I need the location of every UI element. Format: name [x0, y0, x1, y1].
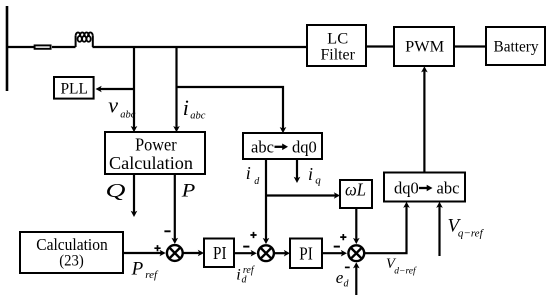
wire: LC filter to PWM [366, 45, 394, 47]
summing junction S2 [258, 245, 274, 261]
plus sign above sum2 [250, 232, 256, 238]
svg-text:(23): (23) [59, 252, 84, 269]
wire: sum3 to dq0-abc, arrow up [364, 202, 410, 254]
wire: PI1 to sum2, arrow [234, 250, 257, 257]
minus sign PI2 to sum3 [334, 246, 340, 248]
minus sign e_d [345, 266, 350, 268]
svg-text:d: d [254, 176, 260, 187]
svg-text:q−ref: q−ref [458, 228, 485, 240]
svg-text:P: P [181, 181, 196, 201]
svg-text:PI: PI [213, 243, 227, 263]
box: dq0 to abc [384, 173, 465, 202]
wire: omega-L down to sum3, arrow [353, 208, 360, 244]
svg-text:i: i [308, 164, 313, 184]
box: Battery [486, 27, 545, 65]
summing junction S1 [167, 245, 183, 261]
svg-text:q: q [315, 175, 321, 187]
box: PLL [54, 77, 94, 99]
minus sign left of sum2 [243, 246, 249, 248]
svg-text:i: i [246, 163, 251, 183]
label v_abc [108, 93, 136, 121]
arrow Q output [131, 174, 138, 217]
wire: e_d up into sum3, arrow [353, 262, 360, 295]
wire: resistor to inductor [52, 46, 76, 48]
arrow sum1 to PI1 [183, 250, 205, 257]
svg-text:Battery: Battery [494, 39, 539, 56]
resistor R [35, 45, 51, 48]
svg-text:v: v [108, 93, 118, 118]
svg-text:P: P [131, 259, 144, 280]
wire: dq0-abc up to PWM, arrow [421, 66, 428, 172]
wire: i_abc branch to abc-dq0, arrow down [177, 87, 287, 133]
label V_q-ref [448, 216, 485, 240]
svg-text:d: d [242, 275, 248, 286]
svg-text:d−ref: d−ref [394, 266, 417, 277]
box: omega L [340, 179, 372, 208]
box: LC Filter [307, 25, 366, 66]
label P_ref [131, 259, 159, 281]
arrow i_q output [294, 159, 301, 183]
svg-text:abc: abc [437, 179, 460, 198]
label i_d_ref [236, 265, 255, 286]
svg-text:Q: Q [106, 181, 126, 202]
label i_d [246, 163, 260, 187]
plus sign above sum3 [340, 234, 346, 240]
svg-text:LC: LC [327, 31, 348, 48]
svg-text:PWM: PWM [405, 39, 444, 56]
label e_d [336, 268, 350, 290]
wire: P output down to sum1, arrow [172, 174, 179, 244]
box: PWM [394, 27, 454, 66]
grid bus bar [6, 6, 9, 91]
arrow sum2 to PI2 [274, 250, 290, 257]
wire: tap to PLL with arrow [96, 86, 135, 93]
label i_q [308, 164, 321, 187]
box: PI (1) [204, 239, 234, 268]
wire: PI2 to sum3, arrow [322, 250, 347, 257]
svg-text:dq0: dq0 [394, 179, 419, 198]
svg-text:ωL: ωL [345, 179, 366, 199]
plus sign at sum1 [154, 245, 160, 251]
box: PI (2) [290, 239, 322, 269]
wire: i_abc vertical, arrow into Power Calculation [173, 47, 180, 132]
svg-text:Filter: Filter [320, 46, 355, 63]
svg-text:i: i [236, 267, 240, 284]
svg-text:i: i [183, 95, 189, 120]
label i_abc [183, 95, 206, 122]
svg-text:PLL: PLL [60, 81, 88, 98]
svg-text:Power: Power [135, 134, 177, 154]
wire: v_abc vertical, arrow into Power Calculation [131, 47, 138, 132]
svg-text:e: e [336, 268, 344, 287]
summing junction S3 [348, 245, 364, 261]
wire: i_d down to sum2, arrow [263, 159, 270, 244]
wire: V_q-ref input, arrow up [436, 202, 443, 256]
wire: PWM to Battery [454, 45, 486, 47]
wire: Calculation to sum1, arrow [123, 250, 166, 257]
svg-text:ref: ref [145, 269, 159, 281]
svg-text:abc: abc [190, 111, 206, 122]
svg-text:dq0: dq0 [292, 138, 317, 157]
inductor L [76, 36, 93, 47]
svg-text:PI: PI [299, 243, 313, 263]
box: Power Calculation [105, 132, 205, 174]
box: Calculation (23) [20, 232, 123, 273]
svg-text:d: d [344, 278, 350, 289]
minus sign above sum1 [164, 230, 170, 232]
wire: bus to resistor [7, 46, 34, 48]
svg-text:abc: abc [120, 110, 136, 121]
label V_d-ref [386, 256, 417, 277]
box: abc to dq0 [243, 133, 322, 159]
svg-text:Calculation: Calculation [109, 153, 193, 173]
wire: inductor to LC filter [93, 46, 308, 48]
wire: i_d branch to omega-L, arrow [266, 192, 340, 199]
svg-text:abc: abc [251, 138, 274, 157]
